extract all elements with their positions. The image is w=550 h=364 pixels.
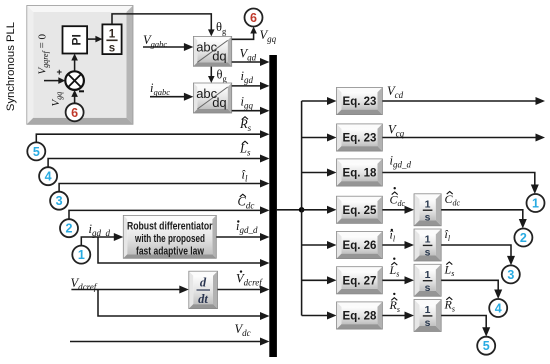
label Ls hat (left) [239,141,251,157]
wire theta_g between abc-dq blocks [208,66,215,83]
plus sign at summing junction [57,67,63,78]
svg-text:Synchronous PLL: Synchronous PLL [5,22,17,111]
label igq [241,95,254,111]
wire node 4 elbow to bus [48,155,269,168]
block Eq. 28 [337,302,383,329]
wire integrator output to node 4 [441,280,502,299]
block Eq. 26 [337,231,383,258]
svg-text:2: 2 [66,222,73,236]
svg-text:1: 1 [425,234,431,246]
label Vdc [235,322,251,338]
wire Vgabc into abc-dq [143,43,193,51]
wire Vgqref into summing junction [44,77,65,84]
wire igd to bus [232,82,270,90]
svg-text:PI: PI [70,34,84,45]
block Eq. 23 [337,87,383,114]
label Vgq [260,28,277,44]
svg-text:Robust differentiator: Robust differentiator [127,221,213,233]
wire robust differentiator output to bus [216,233,269,241]
wire distribution to Eq. 28 [302,312,337,320]
wire distribution to Eq. 23 [302,134,337,142]
svg-text:s: s [425,247,431,259]
block Eq. 27 [337,267,383,294]
wire integrator output to node 2 [441,210,527,229]
wire Vdcref branch down to bus [98,290,270,321]
svg-text:5: 5 [483,339,490,353]
node 3 (right connector) [502,265,520,283]
wire Vcq output [382,134,545,142]
Synchronous PLL enclosure box [27,6,133,125]
svg-text:4: 4 [495,302,502,316]
svg-text:with the proposed: with the proposed [134,233,205,245]
wire igq to bus [232,107,270,115]
node 2 (left connector) [60,219,78,237]
wire PI to 1/s [87,36,102,43]
wire Vdc to bus [70,338,270,346]
svg-text:Eq. 23: Eq. 23 [343,96,377,108]
label Ls hat-dot [389,258,400,279]
label Ls hat (right) [444,262,455,278]
wire Eq. 27 to integrator [382,276,414,284]
svg-text:s: s [109,43,115,55]
wire bus to distribution node [277,209,302,211]
svg-text:d: d [200,276,207,290]
wire igd_d branch down to bus [98,237,270,267]
svg-text:Eq. 28: Eq. 28 [343,311,377,323]
wire Eq.18 output to node 1 [382,173,538,195]
bus bar (thick vertical line) [269,55,277,357]
wire summing junction to PI [71,54,78,72]
block 1/s integrator row 4 [414,194,441,226]
wire distribution to Eq. 27 [302,276,337,284]
wire vertical distribution line [301,101,303,316]
wire Vgd to bus [232,58,270,66]
block abc-dq (current) [193,83,231,113]
svg-text:3: 3 [56,194,63,208]
svg-text:Eq. 27: Eq. 27 [343,276,377,288]
label Vdcref [71,276,98,292]
svg-text:s: s [425,282,431,294]
svg-text:fast adaptive law: fast adaptive law [136,246,205,258]
label igabc [150,81,170,97]
block 1/s integrator row 6 [414,264,441,296]
wire integrator output to node 5 [441,316,490,337]
svg-text:3: 3 [507,268,514,282]
wire Eq. 25 to integrator [382,206,414,214]
label Vgqref = 0 [37,33,51,74]
label Cdc hat-dot [390,187,406,208]
label igd_d dot (to bus) [236,219,258,235]
wire node 6 to summing junction [71,90,78,103]
node 3 (left connector) [50,192,68,210]
svg-text:s: s [425,211,431,223]
wire d/dt output to bus [218,286,270,294]
label Vgabc [143,33,167,49]
node 2 (right connector) [514,229,532,247]
label il hat (left) [242,168,248,184]
svg-text:Eq. 25: Eq. 25 [343,205,377,217]
block 1/s integrator row 5 [414,229,441,261]
svg-text:dt: dt [198,292,208,306]
label Vcd [387,84,404,100]
wire Vgq to node 6 [232,27,257,40]
block Eq. 18 [337,159,383,186]
wire node 1 to robust differentiator [81,233,123,246]
block Eq. 25 [337,196,383,223]
label igd_d (right) [390,154,412,170]
node 6 (PLL input connector) [66,103,84,121]
block Eq. 23 [337,124,383,151]
svg-text:1: 1 [425,304,431,316]
wire Vdcref to d/dt [71,286,188,294]
label Rs hat-dot [389,293,400,314]
svg-text:1: 1 [109,29,116,41]
wire distribution to Eq. 26 [302,241,337,249]
label Vgq (PLL input) [50,92,64,107]
label theta_g (top) [216,20,227,36]
node 6 (top connector) [245,9,263,27]
wire node 2 elbow to bus [69,206,270,219]
wire distribution to Eq. 18 [302,169,337,177]
label igd [241,69,254,85]
node 1 (left connector) [72,246,90,264]
svg-text:s: s [425,317,431,329]
svg-text:1: 1 [78,248,85,262]
node 5 (left connector) [27,142,45,160]
minus sign at summing junction [79,90,84,92]
svg-text:2: 2 [520,231,527,245]
label theta_g (middle) [217,68,228,84]
label il hat-dot [390,228,396,244]
block robust differentiator [123,215,216,258]
block 1/s (PLL integrator) [102,24,121,54]
svg-text:Eq. 23: Eq. 23 [343,133,377,145]
label Rs hat (right) [444,297,455,313]
wire node 5 elbow to bus [36,130,269,142]
node 4 (left connector) [39,167,57,185]
label Vcq [388,123,405,139]
node 4 (right connector) [489,299,507,317]
svg-text:1: 1 [425,198,431,210]
label Vgd [240,47,257,63]
wire Eq. 26 to integrator [382,241,414,249]
label Rs hat (left) [239,117,252,133]
wire node 3 elbow to bus [59,180,269,192]
wire theta_g from 1/s to first abc-dq block [112,14,215,37]
summing junction [65,71,84,90]
svg-text:Eq. 26: Eq. 26 [343,240,377,252]
block PI [63,26,88,53]
junction dot at distribution node [299,207,305,213]
block d/dt differentiator [189,271,218,308]
svg-text:dq: dq [212,95,226,110]
svg-text:6: 6 [250,11,257,25]
label Vdcref dot (to bus) [236,270,263,287]
svg-text:5: 5 [33,145,40,159]
block 1/s integrator row 7 [414,300,441,332]
wire integrator output to node 3 [441,245,515,265]
node 1 (right connector) [527,194,545,212]
wire distribution to Eq. 25 [302,206,337,214]
label Cdc hat (left) [238,194,255,210]
label Synchronous PLL [5,22,17,111]
node 5 (right connector) [477,337,495,355]
label Cdc hat (right) [445,192,461,208]
svg-text:4: 4 [45,170,52,184]
svg-text:dq: dq [212,48,226,63]
svg-text:Eq. 18: Eq. 18 [343,168,377,180]
label il hat (right) [445,227,451,243]
wire Vcd output [382,97,545,105]
svg-text:1: 1 [532,197,539,211]
label igd_d (left) [89,222,111,238]
wire distribution to Eq. 23 [302,97,337,105]
wire Eq. 28 to integrator [382,312,414,320]
wire igabc into abc-dq [150,93,193,101]
svg-text:1: 1 [425,269,431,281]
block abc-dq (voltage) [193,36,231,66]
svg-text:6: 6 [71,106,78,120]
svg-text:+: + [57,67,63,78]
